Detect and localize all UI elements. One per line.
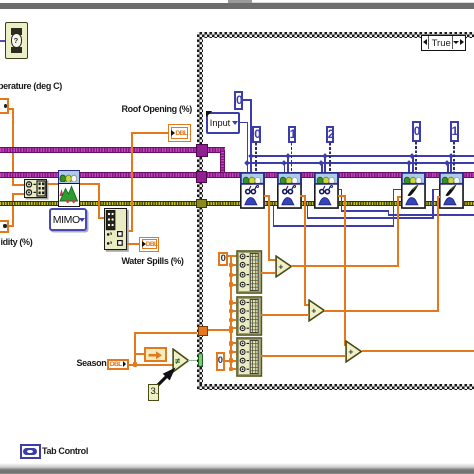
label Temperature (deg C)	[0, 81, 62, 91]
wire water spills to DBL	[127, 243, 139, 245]
express VI U2 (sigma)	[277, 172, 303, 210]
annotation arrow (cursor)	[152, 366, 182, 392]
case structure top border	[197, 32, 474, 38]
express VI U3 (sigma)	[314, 172, 340, 210]
conversion node (arrow box)	[144, 347, 167, 362]
label Humidity (%)	[1, 237, 33, 247]
label Season	[77, 358, 107, 368]
orange wire U1 out to add T1	[264, 195, 270, 197]
blue wire L3 from U3	[339, 189, 342, 191]
tunnel magenta B	[196, 171, 207, 183]
season wires	[129, 364, 174, 366]
constant 0 (top)	[234, 91, 243, 111]
bundle node (2 inputs)	[24, 179, 47, 198]
svg-text:+: +	[348, 346, 353, 356]
add node T2	[308, 299, 326, 322]
wire roof opening	[133, 132, 168, 134]
orange wire U2 out to add T2	[300, 195, 305, 197]
magenta dynamic-data wire B	[0, 172, 474, 177]
tunnel olive	[196, 199, 207, 209]
express VI U5 (quill)	[439, 172, 465, 210]
add node T3	[345, 340, 363, 363]
wire B2 out to T2	[261, 314, 309, 316]
constant 1 (VI5)	[450, 121, 459, 142]
express VI U4 (quill)	[401, 172, 427, 210]
wire T2 out up to U5	[324, 310, 438, 312]
terminal Humidity	[0, 220, 9, 233]
MIMO combo box	[49, 208, 87, 231]
comparison triangle	[172, 348, 190, 373]
magenta wire A vertical drop	[220, 150, 225, 175]
wire bundle to model icon	[47, 183, 58, 185]
label Water Spills (%)	[122, 256, 184, 266]
wire T1 out up to U4	[291, 265, 398, 267]
blue wire L2 from U2 to U5	[307, 206, 309, 219]
build array B1	[236, 250, 263, 294]
constant 0 (VI4)	[412, 121, 421, 142]
indicator Water Spills DBL	[139, 237, 159, 253]
svg-text:≠: ≠	[175, 356, 180, 366]
blue line1	[250, 155, 474, 157]
constant 1 (VI2)	[288, 126, 297, 143]
tunnel magenta A	[196, 144, 208, 156]
constant 0 (VI1)	[252, 126, 261, 143]
add node T1	[275, 255, 293, 278]
Water Spills express VI	[104, 208, 127, 250]
label Tab Control	[42, 446, 88, 456]
numeric constant 0 (build array 3)	[216, 352, 225, 372]
build array B3	[236, 337, 263, 377]
wire model icon to water spills vi	[80, 183, 100, 185]
control Season DBL	[107, 359, 129, 371]
CD model icon (mountains)	[58, 170, 80, 185]
terminal Temperature	[0, 98, 9, 114]
case structure left border	[197, 32, 203, 390]
numeric constant 0 (build array 1)	[218, 252, 228, 266]
olive scalar wire	[0, 201, 474, 206]
wire 0 to build array 1	[228, 255, 237, 257]
wire to case selector (green)	[188, 360, 198, 362]
case selector terminal	[198, 353, 204, 367]
bottom window status bar	[0, 463, 474, 474]
wire humidity to bundle	[9, 225, 14, 227]
tunnel orange (season)	[198, 326, 208, 336]
wire temperature to bundle	[9, 108, 14, 110]
svg-text:+: +	[278, 261, 283, 271]
case selector label True	[421, 35, 467, 51]
express VI U1 (sigma)	[240, 172, 266, 210]
stubs column to build array rows + junction dots	[230, 264, 237, 266]
wire (violet stub to wait)	[0, 40, 5, 42]
indicator Roof Opening DBL	[168, 124, 191, 142]
wire Input to line2	[240, 122, 249, 124]
dashed constant wires into VIs	[255, 143, 257, 173]
build array B2	[236, 296, 263, 336]
junction diamonds on blue lines	[248, 153, 254, 159]
toolbar top bar	[228, 0, 254, 3]
wire T3 out to right edge	[362, 350, 474, 352]
tab control terminal	[20, 444, 41, 459]
case structure bottom border	[197, 384, 474, 390]
wire B3 out to T3	[261, 355, 345, 357]
annotation label 3.	[148, 384, 159, 401]
label Roof Opening (%)	[122, 104, 192, 114]
wire B1 out to T1	[261, 272, 275, 274]
blue line2	[247, 162, 474, 164]
orange wire U3 out to add T3	[338, 195, 346, 197]
svg-text:+: +	[311, 306, 316, 316]
wire 0-top to line1	[243, 99, 252, 101]
magenta dynamic-data wire A	[0, 147, 225, 152]
constant 2 (VI3)	[326, 126, 335, 143]
ring constant Input	[206, 112, 239, 134]
VI input stubs from lines (VI2..VI5)	[287, 155, 289, 172]
wait (ms) function	[5, 22, 28, 59]
orange junction column	[230, 255, 232, 370]
blue wire L1 from U1 to U4	[273, 206, 275, 227]
